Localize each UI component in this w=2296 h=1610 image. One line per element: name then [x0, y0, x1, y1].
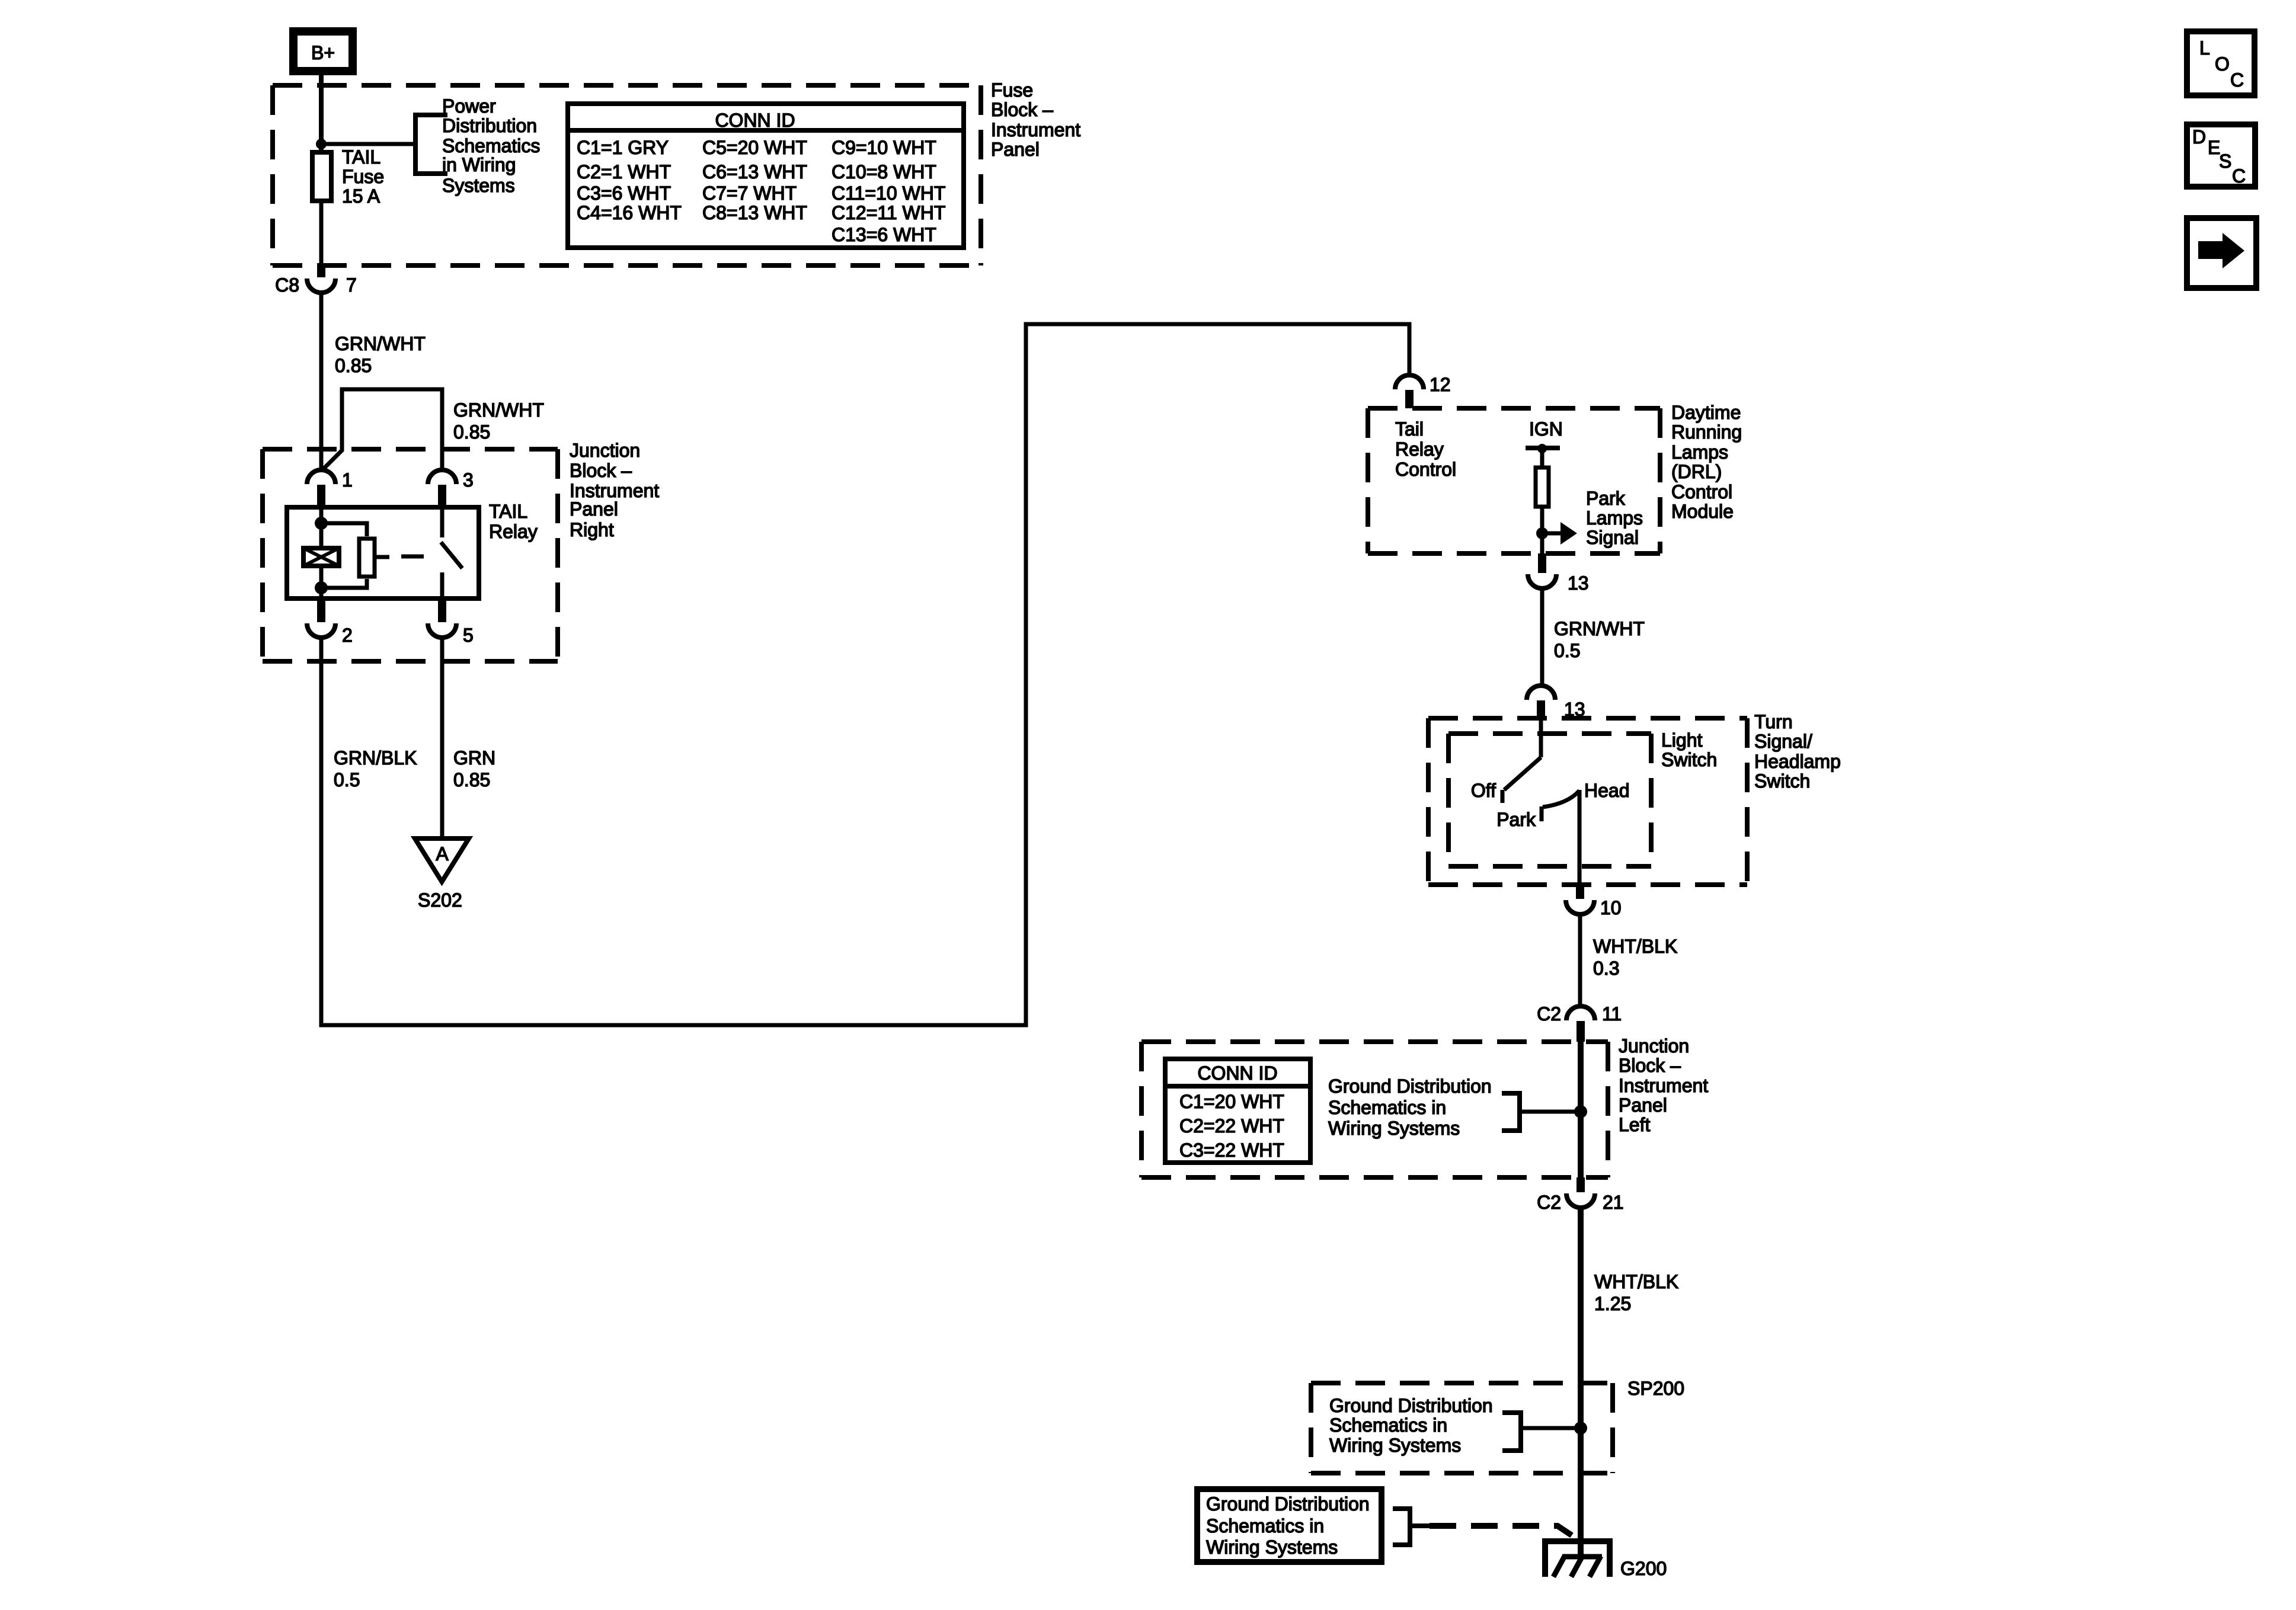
- svg-text:in Wiring: in Wiring: [442, 154, 516, 175]
- svg-text:GRN/BLK: GRN/BLK: [334, 747, 417, 769]
- coil parallel resistor branch: [321, 523, 375, 588]
- svg-text:Ground Distribution: Ground Distribution: [1328, 1076, 1492, 1097]
- svg-text:C5=20 WHT: C5=20 WHT: [702, 137, 807, 158]
- svg-text:Panel: Panel: [1619, 1094, 1667, 1116]
- svg-text:C11=10 WHT: C11=10 WHT: [832, 183, 945, 204]
- svg-text:Daytime: Daytime: [1671, 402, 1741, 423]
- connector pin 13 DRL out: [1528, 553, 1589, 594]
- svg-text:0.85: 0.85: [453, 421, 490, 443]
- svg-text:C1=1 GRY: C1=1 GRY: [577, 137, 669, 158]
- label TAIL Fuse 15 A: [342, 146, 384, 207]
- svg-text:0.5: 0.5: [334, 769, 360, 790]
- svg-text:GRN/WHT: GRN/WHT: [453, 399, 544, 421]
- svg-text:TAIL: TAIL: [342, 146, 380, 168]
- wire WHT/BLK 0.3: [1578, 914, 1582, 1006]
- svg-text:Light: Light: [1661, 729, 1703, 751]
- svg-text:B+: B+: [311, 42, 335, 63]
- svg-text:C2: C2: [1537, 1192, 1561, 1213]
- connector pin 10: [1566, 885, 1622, 918]
- armature link dashes: [376, 555, 389, 559]
- park lamps signal arrow: [1542, 522, 1577, 545]
- svg-text:C6=13 WHT: C6=13 WHT: [702, 161, 807, 183]
- svg-text:0.5: 0.5: [1554, 640, 1580, 661]
- svg-text:1.25: 1.25: [1594, 1293, 1631, 1314]
- svg-text:TAIL: TAIL: [489, 501, 527, 522]
- svg-text:C10=8 WHT: C10=8 WHT: [832, 161, 936, 183]
- svg-text:7: 7: [346, 274, 357, 296]
- label GRN/WHT 0.85: [335, 333, 426, 376]
- svg-text:Instrument: Instrument: [991, 119, 1080, 140]
- CONN ID table 2: [1163, 1059, 1313, 1163]
- label TAIL Relay: [489, 501, 538, 542]
- svg-text:1: 1: [342, 469, 353, 491]
- svg-text:0.85: 0.85: [453, 769, 490, 790]
- svg-text:C7=7 WHT: C7=7 WHT: [702, 183, 797, 204]
- wire B+ down to fuse: [319, 75, 324, 152]
- svg-text:Relay: Relay: [1395, 438, 1444, 460]
- svg-text:GRN/WHT: GRN/WHT: [1554, 618, 1645, 639]
- switch arm to Off: [1504, 757, 1541, 790]
- svg-text:C8=13 WHT: C8=13 WHT: [702, 202, 807, 223]
- svg-text:Module: Module: [1671, 501, 1734, 522]
- svg-text:Left: Left: [1619, 1114, 1650, 1135]
- svg-text:Schematics in: Schematics in: [1329, 1414, 1447, 1436]
- loc reference box: [2187, 31, 2255, 95]
- svg-text:Switch: Switch: [1661, 749, 1717, 770]
- svg-text:L: L: [2199, 37, 2210, 59]
- connector C8 pin 7: [275, 265, 357, 296]
- svg-text:Lamps: Lamps: [1586, 507, 1643, 529]
- svg-text:Schematics in: Schematics in: [1328, 1097, 1446, 1118]
- svg-text:Fuse: Fuse: [991, 79, 1033, 101]
- svg-text:Signal/: Signal/: [1754, 731, 1812, 752]
- label Turn Signal Headlamp Switch: [1754, 711, 1841, 792]
- svg-text:10: 10: [1600, 897, 1622, 918]
- bracket stub: [1410, 1523, 1430, 1528]
- svg-text:Park: Park: [1496, 809, 1536, 830]
- svg-text:C9=10 WHT: C9=10 WHT: [832, 137, 936, 158]
- svg-text:12: 12: [1430, 374, 1451, 395]
- svg-text:Head: Head: [1584, 780, 1630, 801]
- svg-text:15 A: 15 A: [342, 185, 380, 207]
- svg-text:Schematics: Schematics: [442, 135, 540, 156]
- park contact tick: [1540, 806, 1544, 821]
- label Ground Distribution Schematics in Wiring Systems 3: [1206, 1493, 1370, 1558]
- svg-text:WHT/BLK: WHT/BLK: [1593, 936, 1677, 957]
- svg-text:Wiring Systems: Wiring Systems: [1328, 1118, 1460, 1139]
- svg-text:SP200: SP200: [1627, 1378, 1684, 1399]
- svg-text:CONN ID: CONN ID: [1197, 1062, 1277, 1084]
- arrow reference box: [2187, 218, 2256, 288]
- connector pin 12: [1395, 374, 1451, 408]
- svg-text:3: 3: [463, 469, 474, 491]
- connector pin 5: [428, 601, 474, 646]
- svg-text:Ground Distribution: Ground Distribution: [1206, 1493, 1370, 1515]
- label GRN/BLK 0.5: [334, 747, 417, 790]
- svg-text:13: 13: [1568, 572, 1589, 594]
- label Park Lamps Signal: [1586, 488, 1643, 548]
- svg-text:Right: Right: [570, 519, 614, 540]
- svg-text:Junction: Junction: [1619, 1035, 1689, 1057]
- wire GRN/BLK pin2 down and across to DRL: [321, 324, 1409, 1025]
- svg-text:IGN: IGN: [1529, 418, 1563, 440]
- power distribution reference bracket: [415, 115, 447, 174]
- label Ground Distribution Schematics in Wiring Systems 1: [1328, 1076, 1492, 1139]
- splice S202 triangle: [415, 838, 469, 911]
- svg-text:C13=6 WHT: C13=6 WHT: [832, 224, 936, 245]
- label Junction Block - Instrument Panel Right: [570, 440, 659, 540]
- wire WHT/BLK 1.25 to ground: [1578, 1208, 1584, 1557]
- power symbol B+: [293, 31, 353, 71]
- svg-text:Panel: Panel: [570, 498, 618, 520]
- ground distribution dashed box SP200: [1311, 1383, 1613, 1473]
- svg-text:Power: Power: [442, 95, 496, 117]
- svg-text:C2: C2: [1537, 1003, 1561, 1025]
- svg-text:Junction: Junction: [570, 440, 640, 461]
- node in junction block left: [1574, 1105, 1587, 1118]
- label Fuse Block - Instrument Panel: [991, 79, 1080, 160]
- svg-text:GRN: GRN: [453, 747, 495, 769]
- svg-text:Tail: Tail: [1395, 418, 1424, 440]
- svg-text:C3=22 WHT: C3=22 WHT: [1179, 1140, 1284, 1161]
- connector pin 2: [307, 601, 353, 646]
- junction block instrument panel left dashed box: [1141, 1042, 1608, 1177]
- label Light Switch: [1661, 729, 1717, 770]
- wire bracket to splice node: [1521, 1426, 1581, 1430]
- ground reference bracket 3: [1393, 1509, 1410, 1545]
- label Tail Relay Control: [1395, 418, 1456, 480]
- wire IGN to resistor: [1540, 449, 1544, 468]
- svg-text:C2=1 WHT: C2=1 WHT: [577, 161, 671, 183]
- label WHT/BLK 1.25: [1594, 1271, 1678, 1314]
- relay coil wire bottom: [319, 568, 324, 601]
- wire GRN/WHT 0.5: [1540, 588, 1544, 686]
- ground G200: [1545, 1541, 1610, 1577]
- wire fuse to C8: [319, 201, 324, 268]
- turn signal headlamp switch outer dashed box: [1428, 718, 1747, 885]
- splice node SP200: [1574, 1422, 1587, 1435]
- label GRN/WHT 0.5: [1554, 618, 1645, 661]
- connector pin 3: [428, 469, 474, 505]
- svg-text:Turn: Turn: [1754, 711, 1793, 732]
- ground distribution reference bracket 2: [1502, 1413, 1521, 1451]
- svg-text:C3=6 WHT: C3=6 WHT: [577, 183, 671, 204]
- light switch inner dashed box: [1448, 734, 1651, 866]
- node junction in fuse block: [316, 139, 327, 149]
- wire GRN pin5 to splice: [440, 638, 445, 837]
- junction block instrument panel right dashed box: [263, 449, 558, 661]
- label Daytime Running Lamps (DRL) Control Module: [1671, 402, 1742, 522]
- svg-text:2: 2: [342, 625, 353, 646]
- svg-text:Signal: Signal: [1586, 527, 1639, 548]
- label WHT/BLK 0.3: [1593, 936, 1677, 979]
- svg-text:C1=20 WHT: C1=20 WHT: [1179, 1091, 1284, 1112]
- junction dot bottom: [315, 581, 328, 594]
- svg-text:D: D: [2192, 126, 2206, 148]
- ground distribution reference bracket 1: [1502, 1093, 1520, 1131]
- junction dot top: [315, 517, 328, 530]
- svg-text:11: 11: [1602, 1003, 1622, 1025]
- svg-text:A: A: [436, 843, 449, 865]
- label Ground Distribution Schematics in Wiring Systems 2: [1329, 1395, 1493, 1456]
- svg-text:(DRL): (DRL): [1671, 461, 1722, 482]
- dashed leader to ground: [1430, 1526, 1572, 1535]
- svg-text:Relay: Relay: [489, 521, 538, 542]
- svg-text:0.3: 0.3: [1593, 958, 1619, 979]
- head contact line: [1578, 790, 1582, 885]
- svg-text:Panel: Panel: [991, 139, 1040, 160]
- svg-text:Headlamp: Headlamp: [1754, 751, 1841, 772]
- wire to power distribution reference: [321, 142, 415, 146]
- wire GRN/WHT C8 to relay pin 1: [319, 293, 324, 471]
- svg-text:Distribution: Distribution: [442, 115, 537, 136]
- connector pin 13 switch in: [1527, 686, 1585, 720]
- park head arc: [1543, 790, 1579, 807]
- svg-text:Control: Control: [1671, 481, 1732, 502]
- svg-text:C2=22 WHT: C2=22 WHT: [1179, 1115, 1284, 1137]
- node on IGN bar: [1537, 444, 1547, 453]
- svg-text:Park: Park: [1586, 488, 1626, 509]
- DRL resistor: [1536, 468, 1549, 507]
- tail relay box: [287, 507, 479, 598]
- svg-text:S: S: [2219, 151, 2231, 172]
- CONN ID table 1: [565, 104, 966, 248]
- ground distribution solid box: [1197, 1489, 1382, 1562]
- svg-text:0.85: 0.85: [335, 355, 372, 376]
- svg-text:G200: G200: [1620, 1558, 1667, 1579]
- svg-text:C: C: [2232, 165, 2246, 187]
- svg-text:S202: S202: [418, 889, 462, 911]
- svg-text:Block –: Block –: [570, 460, 632, 481]
- DRL control module dashed box: [1368, 408, 1660, 553]
- label GRN 0.85: [453, 747, 495, 790]
- relay coil: [303, 548, 339, 566]
- relay switch contact: [441, 505, 462, 601]
- svg-text:Running: Running: [1671, 421, 1742, 443]
- IGN feed bar: [1526, 446, 1560, 450]
- svg-text:Systems: Systems: [442, 175, 515, 196]
- label Power Distribution Schematics in Wiring Systems: [442, 95, 540, 196]
- wire inside junction block left: [1578, 1042, 1584, 1177]
- svg-text:Block –: Block –: [991, 99, 1053, 120]
- svg-text:5: 5: [463, 625, 474, 646]
- label Junction Block - Instrument Panel Left: [1619, 1035, 1708, 1135]
- svg-text:GRN/WHT: GRN/WHT: [335, 333, 426, 354]
- svg-text:Ground Distribution: Ground Distribution: [1329, 1395, 1493, 1416]
- label GRN/WHT 0.85 branch: [453, 399, 544, 443]
- connector pin 1: [307, 469, 353, 505]
- relay coil wire top: [319, 505, 324, 546]
- desc reference box: [2187, 124, 2255, 187]
- branch wire pin1 to pin3 loop: [322, 389, 442, 470]
- svg-text:C: C: [2230, 69, 2244, 91]
- svg-text:Switch: Switch: [1754, 770, 1810, 792]
- svg-text:Lamps: Lamps: [1671, 441, 1728, 463]
- connector C2 pin 21: [1537, 1177, 1624, 1213]
- svg-text:C4=16 WHT: C4=16 WHT: [577, 202, 682, 223]
- fuse block dashed box: [273, 85, 981, 265]
- svg-text:Control: Control: [1395, 459, 1456, 480]
- node park lamps signal: [1536, 527, 1548, 539]
- wire node to ground distribution bracket: [1522, 1110, 1581, 1114]
- svg-text:Wiring Systems: Wiring Systems: [1206, 1537, 1338, 1558]
- svg-text:C8: C8: [275, 274, 299, 296]
- svg-text:Schematics in: Schematics in: [1206, 1515, 1324, 1537]
- svg-text:21: 21: [1603, 1192, 1624, 1213]
- svg-text:Block –: Block –: [1619, 1055, 1681, 1076]
- svg-text:WHT/BLK: WHT/BLK: [1594, 1271, 1678, 1292]
- wire resistor to pin 13: [1540, 507, 1544, 553]
- svg-text:CONN ID: CONN ID: [715, 110, 795, 131]
- svg-text:Fuse: Fuse: [342, 166, 384, 187]
- connector C2 pin 11: [1537, 1003, 1622, 1042]
- svg-text:Wiring Systems: Wiring Systems: [1329, 1435, 1461, 1456]
- svg-text:Off: Off: [1471, 780, 1496, 801]
- svg-text:Instrument: Instrument: [1619, 1075, 1708, 1096]
- fuse TAIL 15 A: [312, 152, 331, 201]
- switch common wire: [1539, 718, 1543, 757]
- svg-text:C12=11 WHT: C12=11 WHT: [832, 202, 945, 223]
- svg-text:O: O: [2215, 53, 2230, 75]
- off contact tick: [1501, 790, 1505, 803]
